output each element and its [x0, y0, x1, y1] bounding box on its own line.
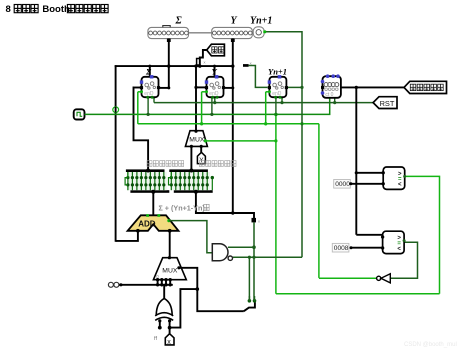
label shift-right-1 left: [147, 161, 152, 167]
node bus-yreg: [213, 65, 216, 68]
wire not out: [319, 277, 377, 279]
wire yn1 reg D path: [249, 66, 268, 88]
wire sigma reg D stub: [134, 87, 143, 89]
node mux-col-yreg: [194, 86, 197, 89]
wire sigma Q tap: [138, 91, 142, 93]
wire bus-left to ADD: [116, 230, 138, 241]
tunnel X: [165, 334, 174, 345]
wire mux2 stubs: [157, 280, 159, 285]
node sigma-q: [167, 86, 170, 89]
svg-text:MUX: MUX: [162, 267, 178, 274]
wire xor in right: [169, 321, 171, 334]
tunnel clock-cycles: [404, 81, 447, 93]
node shifterL out: [151, 190, 155, 194]
splitter yn1 bit tap: [243, 64, 249, 67]
wire yn1 reg Q link: [286, 86, 302, 88]
tunnel RST: [373, 97, 397, 109]
wire add out right: [169, 231, 171, 258]
wire row D: [138, 123, 319, 125]
wire xor right link: [170, 289, 198, 328]
svg-text:Booth: Booth: [42, 4, 70, 15]
node nand-up-x254: [252, 245, 256, 249]
mux M1: [185, 131, 207, 147]
node rowD-col302: [300, 122, 303, 125]
node bus-product: [198, 64, 201, 67]
svg-text:<: <: [397, 246, 401, 252]
wire mux select row: [205, 140, 276, 142]
node shifterL in: [146, 169, 150, 173]
wire mux2 right sel: [179, 268, 244, 311]
wire bottom green row: [276, 293, 440, 295]
wire RST row: [154, 102, 373, 104]
splitter shifter right: [169, 169, 208, 172]
comparator U2: [383, 231, 405, 253]
node clk-col: [274, 113, 277, 116]
node rowD-yn1: [264, 122, 267, 125]
tunnel 乘积: [207, 44, 225, 56]
svg-text:8: 8: [6, 4, 11, 15]
wires sigma reg bottom stubs: [147, 97, 149, 114]
node cmp1-tap: [355, 171, 358, 174]
splitter merge S3: [244, 302, 255, 311]
output pin Yn+1: [253, 27, 264, 38]
label shift-right-1 right: [199, 161, 204, 167]
svg-text:ADD: ADD: [138, 219, 156, 228]
constant 0008: [332, 243, 349, 252]
wire mux out left: [190, 146, 192, 170]
mark above sigma pins: [163, 26, 170, 28]
wire y pin stub column: [232, 38, 234, 214]
wire gray pin link: [188, 32, 211, 34]
tunnel Y small: [197, 152, 205, 163]
wire y reg Q link: [223, 87, 234, 89]
wire y Q tap: [202, 91, 207, 93]
node counter-branch: [355, 86, 358, 89]
svg-text:x: x: [167, 339, 171, 346]
register Yn+1: [269, 77, 286, 97]
wire shifterL out: [152, 192, 154, 216]
input pin 00: [108, 282, 113, 287]
wire bus to y reg top: [214, 66, 216, 77]
svg-text:x: x: [258, 219, 260, 224]
not gate G2: [377, 276, 381, 280]
node nand-out-249: [248, 256, 251, 259]
node y-col joins: [231, 211, 234, 214]
wire mux2 input row: [119, 284, 173, 286]
wire nand out col 249: [248, 257, 250, 300]
wire clock row: [85, 97, 330, 114]
register Sigma: [142, 77, 159, 97]
svg-text:Y: Y: [212, 67, 218, 77]
wire xor in left: [159, 321, 161, 328]
splitter product tap: [200, 50, 207, 66]
mux M2: [153, 258, 186, 280]
wire rowD drop: [318, 124, 320, 278]
wire counter rst stub: [334, 97, 336, 102]
wires yn1 reg bottom stubs: [275, 97, 277, 114]
adder ADD: [128, 215, 179, 231]
svg-text:Yn+1: Yn+1: [268, 67, 287, 77]
svg-text:Σ: Σ: [175, 16, 183, 27]
svg-text:CSDN @booth_mul: CSDN @booth_mul: [404, 342, 457, 348]
pin square y stub: [231, 39, 235, 42]
svg-text:ct 0: ct 0: [325, 92, 333, 98]
comparator U1: [383, 167, 405, 189]
svg-text:0008: 0008: [334, 245, 349, 252]
svg-text:Y: Y: [231, 16, 238, 27]
nand gate G1: [212, 244, 228, 261]
node y-q: [231, 86, 234, 89]
wire yn1 pin link: [264, 32, 302, 258]
wire bus horizontal: [115, 65, 234, 67]
wire yn1 Q tap: [266, 91, 270, 93]
node shifterR in: [189, 169, 193, 173]
wire cmp2 inA: [356, 234, 382, 236]
constant 0000: [334, 180, 351, 189]
pin square sigma stub: [167, 39, 171, 42]
wire counter branch down: [355, 87, 357, 234]
xor gate G3: [156, 298, 172, 315]
wire mux out right stub: [200, 146, 202, 152]
node yn1reg-col: [300, 86, 303, 89]
output pin group Sigma (9-bit): [148, 27, 189, 38]
wire cmp1 eq out: [405, 176, 440, 293]
wire shifter R extra: [211, 178, 213, 191]
node rowD-y: [200, 122, 203, 125]
wire cmp1 inA: [356, 172, 383, 174]
wire xor out: [163, 285, 165, 300]
wire shifterR out: [196, 192, 254, 219]
svg-text:Σ: Σ: [145, 67, 152, 77]
svg-text:x: x: [204, 60, 206, 65]
wire bus to sigma reg top: [149, 66, 151, 77]
wire counter out: [341, 86, 405, 88]
node bus-mux: [194, 64, 197, 67]
wire en col to nand out: [233, 256, 302, 258]
register Y: [207, 77, 224, 97]
svg-text:MUX: MUX: [189, 137, 205, 144]
wire bus to mux column: [195, 66, 197, 131]
svg-text:<: <: [398, 182, 402, 188]
pin square yn1 out: [263, 30, 266, 33]
svg-text:Yn+1: Yn+1: [250, 16, 272, 27]
svg-text:0000: 0000: [335, 181, 350, 188]
wire bus left column: [115, 65, 117, 242]
node bus-sigma-pin: [167, 64, 170, 67]
wire cmp1 inB: [351, 183, 383, 185]
counter CTR: [323, 76, 341, 98]
wire add carry out: [169, 221, 212, 253]
svg-text:ff: ff: [154, 336, 157, 342]
wire sigma reg D column: [134, 88, 149, 171]
node shifterR out: [194, 190, 198, 194]
node sel-col: [274, 139, 277, 142]
output pin group Y (9-bit): [212, 27, 253, 38]
wire yreg D link: [196, 86, 207, 88]
wires y reg bottom stubs: [211, 97, 213, 114]
svg-text:Σ + (Yn+1-Yn): Σ + (Yn+1-Yn): [159, 204, 206, 213]
clock generator: [74, 109, 85, 119]
wire cmp2 inB: [351, 247, 382, 249]
probe clock: [113, 107, 119, 113]
node nand-out-254: [252, 256, 255, 259]
svg-text:RST: RST: [380, 99, 395, 108]
wire clk-yn1 long column: [275, 114, 277, 293]
wire sigma pin stub: [168, 38, 170, 88]
node bus-y-pin: [231, 64, 234, 67]
wire nand upper link: [228, 246, 254, 248]
splitter bit tap S2: [252, 218, 257, 223]
wire cmp2 eq out: [390, 242, 417, 278]
wire sigma reg Q link: [158, 87, 170, 89]
splitter shifter left: [126, 169, 165, 172]
node bus-sreg: [148, 65, 151, 68]
